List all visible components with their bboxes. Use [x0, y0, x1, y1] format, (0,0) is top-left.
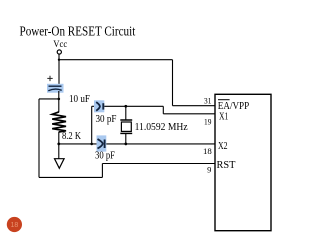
svg-text:Vcc: Vcc: [53, 39, 67, 49]
wire Vcc vertical to capacitor C1: [58, 54, 60, 86]
ground: [55, 159, 65, 169]
svg-text:11.0592 MHz: 11.0592 MHz: [135, 122, 188, 133]
node RST tap junction: [58, 98, 61, 101]
svg-text:31: 31: [204, 95, 211, 105]
wire RST tap to left rail: [39, 98, 59, 100]
svg-text:Power-On RESET Circuit: Power-On RESET Circuit: [20, 24, 136, 39]
wire step up to RST level: [101, 164, 103, 178]
wire upper cap left lead: [92, 105, 100, 107]
node crystal bottom junction: [124, 143, 127, 146]
page number badge: [7, 217, 22, 232]
svg-text:X1: X1: [219, 112, 228, 123]
node ground junction: [57, 143, 60, 146]
capacitor C1 plus sign: [47, 76, 52, 81]
resistor R1 8.2K zigzag: [52, 112, 66, 132]
node Vcc branch junction: [58, 59, 60, 61]
capacitor C2 30pF highlight: [94, 100, 104, 112]
wire upper cap rail vertical: [91, 106, 93, 144]
svg-text:19: 19: [204, 116, 211, 126]
capacitor C3 30pF plates: [98, 139, 103, 148]
wire bottom rail horizontal: [39, 176, 102, 178]
wire horizontal into pin 31: [173, 105, 216, 107]
capacitor C1 10uF highlight: [47, 84, 64, 93]
wire horizontal into pin 9 RST: [102, 163, 215, 165]
svg-text:30 pF: 30 pF: [96, 114, 117, 125]
node lower rail junction: [90, 143, 93, 146]
wire X2 rail right segment into pin 18: [106, 143, 215, 145]
svg-text:30 pF: 30 pF: [95, 150, 115, 161]
wire left rail vertical: [38, 99, 40, 177]
node crystal top junction: [124, 105, 127, 108]
capacitor C1 10uF plates: [49, 85, 62, 87]
wire vertical drop to pin 31: [172, 60, 174, 106]
svg-text:X2: X2: [218, 141, 228, 152]
svg-text:9: 9: [207, 164, 211, 174]
capacitor C2 30pF plates: [96, 102, 100, 111]
wire upper cap right lead to crystal node: [104, 105, 164, 107]
crystal Y1: [125, 106, 127, 120]
capacitor C3 30pF highlight: [97, 135, 107, 151]
wire resistor R1 to ground: [58, 132, 60, 159]
wire step down to X1 level: [162, 106, 164, 114]
svg-text:8.2 K: 8.2 K: [62, 131, 81, 142]
Vcc terminal circle: [57, 50, 61, 54]
pin label EA/VPP with overbar: [218, 99, 230, 101]
svg-text:18: 18: [203, 146, 212, 156]
svg-text:10 uF: 10 uF: [69, 94, 90, 105]
wire horizontal into pin 19 X1: [163, 113, 215, 115]
svg-text:RST: RST: [217, 160, 237, 171]
svg-text:18: 18: [11, 222, 19, 229]
wire capacitor C1 to resistor R1: [58, 91, 60, 112]
wire Vcc horizontal to EA/VPP branch: [59, 59, 173, 61]
wire X2 rail left segment: [59, 143, 99, 145]
svg-text:EA/VPP: EA/VPP: [218, 101, 250, 112]
op-amp U1 8051 chip body: [215, 94, 271, 230]
